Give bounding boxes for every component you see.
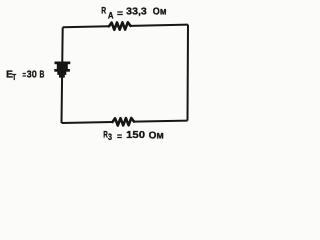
svg-text:=: = [117,131,122,142]
wire left side [62,27,63,123]
wire bottom-right segment [134,121,188,122]
battery ET plates [54,62,70,78]
svg-text:=: = [22,70,26,80]
svg-text:33,3: 33,3 [126,6,147,17]
svg-text:Ом: Ом [153,7,167,18]
svg-text:150: 150 [126,130,145,141]
wire bottom-left segment [62,122,113,123]
svg-text:В: В [40,69,45,80]
svg-text:3: 3 [108,132,112,142]
wire top-left segment [63,26,109,27]
wire right side [187,25,190,121]
wire top-right segment [131,25,189,26]
resistor RA zigzag [109,22,131,30]
svg-text:=: = [117,8,123,19]
svg-text:R: R [101,6,106,17]
resistor R3 zigzag [113,118,135,126]
svg-text:30: 30 [27,70,37,81]
svg-text:А: А [108,11,114,22]
svg-text:Т: Т [12,73,16,82]
svg-text:Ом: Ом [149,131,164,142]
